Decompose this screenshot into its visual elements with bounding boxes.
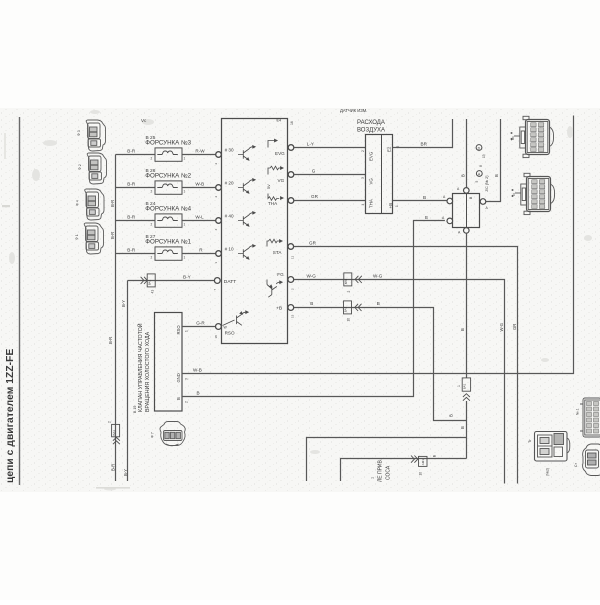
svg-text:B: B xyxy=(425,215,428,220)
svg-text:16: 16 xyxy=(290,121,294,125)
svg-text:В 19: В 19 xyxy=(133,406,137,413)
wire B-Y vertical xyxy=(127,281,129,482)
transistor driver #30 xyxy=(238,146,255,161)
svg-text:ВА1: ВА1 xyxy=(147,279,151,285)
VG internal resistor arrow xyxy=(268,166,283,174)
svg-text:3: 3 xyxy=(361,177,365,179)
ECU pin EVG xyxy=(288,145,294,151)
injector connector plug 2 xyxy=(87,153,106,184)
page left border xyxy=(19,117,21,485)
air flow meter divider xyxy=(381,135,383,214)
svg-text:15: 15 xyxy=(291,314,295,318)
wire +B B to right with corner xyxy=(294,308,467,421)
wire branch lower with AM1 xyxy=(341,459,467,482)
svg-text:Тb: Тb xyxy=(511,137,515,141)
wire DATT B-Y horizontal xyxy=(128,280,215,282)
svg-text:ВОЗДУХА: ВОЗДУХА xyxy=(357,127,385,133)
svg-text:B: B xyxy=(176,397,181,400)
svg-text:STA: STA xyxy=(273,250,283,255)
svg-text:Ст: Ст xyxy=(574,463,578,467)
scan noise marks xyxy=(9,110,592,491)
wire injector row 2 left xyxy=(116,187,156,189)
svg-text:E2: E2 xyxy=(387,146,392,152)
svg-text:J/C (№ 2): J/C (№ 2) xyxy=(485,175,489,192)
svg-text:RSO: RSO xyxy=(176,325,181,335)
svg-text:B: B xyxy=(494,174,499,177)
wire injector row 3 left xyxy=(116,220,156,222)
svg-text:ФОРСУНКА №3: ФОРСУНКА №3 xyxy=(145,140,191,147)
svg-text:41: 41 xyxy=(150,290,154,294)
svg-text:ФОРСУНКА №1: ФОРСУНКА №1 xyxy=(145,239,191,246)
connector АМ1 on lower branch xyxy=(411,456,427,467)
junction pin left upper xyxy=(447,198,453,204)
svg-text:B: B xyxy=(460,426,465,429)
connector right edge 12-pin xyxy=(580,398,600,437)
svg-text:18: 18 xyxy=(214,335,218,339)
wire RSO G-R xyxy=(182,326,216,328)
junction pin bottom xyxy=(464,228,470,234)
svg-text:D: D xyxy=(478,146,481,150)
connector Tc 12-pin xyxy=(512,173,555,214)
svg-text:БА1: БА1 xyxy=(112,430,116,436)
svg-text:ВРАЩЕНИЯ ХОЛОСТОГО ХОДА: ВРАЩЕНИЯ ХОЛОСТОГО ХОДА xyxy=(145,331,151,412)
svg-text:VG: VG xyxy=(369,178,374,185)
svg-text:W-L: W-L xyxy=(195,215,204,220)
wire BR from air flow E2 xyxy=(393,119,453,148)
svg-text:БА1: БА1 xyxy=(463,383,467,389)
svg-text:L-Y: L-Y xyxy=(307,142,314,147)
svg-text:БА1: БА1 xyxy=(344,306,348,312)
svg-text:13: 13 xyxy=(482,154,486,158)
svg-text:# 20: # 20 xyxy=(225,180,234,185)
ECU pin #40 xyxy=(216,218,222,224)
wire injector row 4 left xyxy=(116,253,156,255)
svg-text:1: 1 xyxy=(371,477,375,479)
svg-text:BR: BR xyxy=(421,141,428,146)
svg-text:2: 2 xyxy=(151,157,153,161)
connector БА1 on B vertical xyxy=(462,378,470,401)
svg-text:Vc: Vc xyxy=(141,118,147,123)
svg-text:2: 2 xyxy=(151,190,153,194)
valve ISC box xyxy=(155,313,183,412)
connector Tb 12-pin xyxy=(511,116,554,157)
junction pin right xyxy=(480,199,486,205)
svg-text:1: 1 xyxy=(184,190,186,194)
svg-text:+B: +B xyxy=(388,203,393,209)
wire FG W-G to right xyxy=(294,280,505,484)
junction block J/C box xyxy=(453,194,480,228)
ISC connector plug xyxy=(160,422,185,446)
svg-text:# 10: # 10 xyxy=(225,246,234,251)
svg-text:10: 10 xyxy=(419,472,423,476)
junction pin left lower xyxy=(447,218,453,224)
THA internal 5V resistor xyxy=(268,194,283,201)
wire injector row 1 left xyxy=(116,154,156,156)
svg-text:2: 2 xyxy=(361,150,365,152)
svg-text:R-W: R-W xyxy=(195,149,205,154)
svg-text:B-R: B-R xyxy=(110,232,115,239)
svg-text:10: 10 xyxy=(347,318,351,322)
svg-text:B-R: B-R xyxy=(127,215,136,220)
wire branch to fuel pump left xyxy=(307,438,467,482)
svg-text:B-R: B-R xyxy=(127,149,136,154)
svg-text:2: 2 xyxy=(184,401,188,403)
svg-text:1: 1 xyxy=(395,205,399,207)
svg-text:DATT: DATT xyxy=(224,279,236,285)
ECU pin STA xyxy=(288,244,294,250)
svg-text:VG: VG xyxy=(278,178,285,183)
svg-text:B-R: B-R xyxy=(127,182,136,187)
ECU pin DATT xyxy=(214,278,220,284)
svg-text:THA: THA xyxy=(268,201,278,206)
svg-text:РАСХОДА: РАСХОДА xyxy=(357,120,385,126)
svg-text:1: 1 xyxy=(184,157,186,161)
svg-text:EVG: EVG xyxy=(275,151,285,156)
svg-text:8: 8 xyxy=(479,165,483,167)
svg-text:RSO: RSO xyxy=(225,330,235,335)
connector BA1 on DATT wire xyxy=(141,274,156,287)
junction pin top xyxy=(464,188,470,194)
svg-text:ЛЕ ПРИВ.: ЛЕ ПРИВ. xyxy=(378,459,384,482)
svg-text:EVG: EVG xyxy=(369,151,374,161)
connector ВЛ1 on FG wire xyxy=(344,273,362,286)
svg-text:B-Y: B-Y xyxy=(123,469,128,476)
svg-text:5V: 5V xyxy=(267,184,271,189)
svg-text:G: G xyxy=(312,169,316,174)
transistor driver #20 xyxy=(238,179,255,194)
svg-text:(№2): (№2) xyxy=(546,468,550,476)
svg-text:GR: GR xyxy=(311,194,319,199)
svg-text:4: 4 xyxy=(361,204,365,206)
svg-text:GND: GND xyxy=(176,373,181,382)
svg-text:СОСА: СОСА xyxy=(386,465,392,480)
transistor RSO xyxy=(223,311,249,326)
svg-text:1: 1 xyxy=(184,330,188,332)
FG internal transistor xyxy=(267,280,282,298)
splice circle A xyxy=(476,171,482,177)
svg-text:W-B: W-B xyxy=(195,182,204,187)
svg-text:B: B xyxy=(460,174,465,177)
wire B vertical to bottom branches xyxy=(466,401,468,459)
svg-text:W-G: W-G xyxy=(499,323,504,332)
svg-text:Тc: Тc xyxy=(512,193,516,197)
ECU pin FG xyxy=(288,277,294,283)
wire ISC B to junction xyxy=(182,221,445,397)
wire B from top right to junction right pin xyxy=(486,119,501,202)
STA internal resistor arrow xyxy=(267,239,282,246)
wire B vertical below junction xyxy=(466,233,468,377)
svg-text:B-R: B-R xyxy=(110,200,115,207)
svg-text:THA: THA xyxy=(369,199,374,208)
wire EVG L-Y xyxy=(294,147,366,149)
svg-text:2: 2 xyxy=(347,291,351,293)
wire injector row 4 right R xyxy=(182,253,216,255)
svg-text:E4: E4 xyxy=(277,119,282,123)
injector connector plug 1 xyxy=(86,120,105,151)
ECU pin RSO xyxy=(216,324,222,330)
svg-text:Ф 2: Ф 2 xyxy=(78,164,82,170)
svg-text:ФОРСУНКА №2: ФОРСУНКА №2 xyxy=(145,173,191,180)
svg-text:КЛАПАН УПРАВЛЕНИЯ ЧАСТОТОЙ: КЛАПАН УПРАВЛЕНИЯ ЧАСТОТОЙ xyxy=(136,323,144,412)
wire air flow +B to junction xyxy=(393,200,447,202)
svg-text:Ф 4: Ф 4 xyxy=(76,200,80,206)
connector Tr relay xyxy=(535,432,570,462)
air flow meter box xyxy=(366,135,393,214)
svg-text:ДАТЧИК ИЗМ.: ДАТЧИК ИЗМ. xyxy=(340,108,367,113)
svg-text:+B: +B xyxy=(276,305,282,311)
svg-text:цепи с двигателем 1ZZ-FE: цепи с двигателем 1ZZ-FE xyxy=(5,349,16,483)
svg-text:B: B xyxy=(310,301,313,306)
svg-text:11: 11 xyxy=(291,256,295,259)
injector connector plug 4 xyxy=(84,223,103,254)
wire B vertical from top to junction xyxy=(466,119,468,187)
svg-text:B: B xyxy=(377,301,380,306)
wire injector row 3 right W-L xyxy=(182,220,216,222)
svg-text:W-G: W-G xyxy=(373,273,383,278)
svg-text:B-Y: B-Y xyxy=(183,274,191,279)
wire VG G xyxy=(294,174,366,176)
ECU pin +B xyxy=(288,305,294,311)
svg-text:B-R: B-R xyxy=(111,464,116,471)
svg-text:# 30: # 30 xyxy=(225,147,234,152)
injector connector plug 3 xyxy=(85,189,104,220)
ECU pin THA xyxy=(288,198,294,204)
svg-text:АМ1: АМ1 xyxy=(421,459,425,466)
wire B-R bus vertical xyxy=(115,155,117,482)
svg-text:B-R: B-R xyxy=(127,248,136,253)
wire THA GR xyxy=(294,200,366,202)
svg-text:1: 1 xyxy=(457,385,461,387)
svg-text:Ф 1: Ф 1 xyxy=(75,234,79,240)
svg-text:№ 1: № 1 xyxy=(576,408,580,415)
connector BA1 on B-R bus xyxy=(112,424,120,444)
svg-text:W-G: W-G xyxy=(307,273,317,278)
svg-text:1: 1 xyxy=(184,256,186,260)
ECU pin VG xyxy=(288,172,294,178)
svg-text:GR: GR xyxy=(512,324,517,330)
svg-text:W-B: W-B xyxy=(193,368,202,373)
ECU pin #20 xyxy=(216,185,222,191)
transistor driver #10 xyxy=(238,245,255,260)
connector БА1 on +B wire xyxy=(344,301,362,314)
svg-text:Ф 3: Ф 3 xyxy=(77,130,81,136)
ECU pin #10 xyxy=(216,251,222,257)
svg-text:B-R: B-R xyxy=(108,337,113,344)
svg-text:B: B xyxy=(448,414,453,417)
svg-text:GR: GR xyxy=(309,240,317,245)
svg-text:G-R: G-R xyxy=(196,321,205,326)
svg-text:# 40: # 40 xyxy=(225,213,234,218)
svg-text:ВЛ1: ВЛ1 xyxy=(344,278,348,284)
svg-text:B: B xyxy=(460,328,465,331)
svg-text:B: B xyxy=(197,390,200,395)
wire injector row 2 right W-B xyxy=(182,187,216,189)
svg-text:2: 2 xyxy=(108,421,112,423)
svg-text:FG: FG xyxy=(277,272,284,277)
svg-text:1: 1 xyxy=(184,223,186,227)
svg-text:3: 3 xyxy=(184,378,188,380)
transistor driver #40 xyxy=(238,212,255,227)
svg-text:ФОРСУНКА №4: ФОРСУНКА №4 xyxy=(145,206,191,213)
wire STA GR to right xyxy=(294,247,518,484)
svg-text:B-Y: B-Y xyxy=(121,300,126,307)
svg-text:Ф 7: Ф 7 xyxy=(151,432,155,438)
wire injector row 1 right R-W xyxy=(182,154,216,156)
svg-text:2: 2 xyxy=(151,223,153,227)
svg-text:2: 2 xyxy=(151,256,153,260)
svg-text:5: 5 xyxy=(475,181,479,183)
splice circle D xyxy=(476,145,482,151)
ECU pin #30 xyxy=(216,152,222,158)
op-amp ECU box xyxy=(222,119,288,344)
wire GND W-B long xyxy=(182,116,574,374)
connector right edge oval xyxy=(583,444,600,476)
svg-text:B: B xyxy=(423,195,426,200)
EVG internal arrow xyxy=(268,139,277,147)
